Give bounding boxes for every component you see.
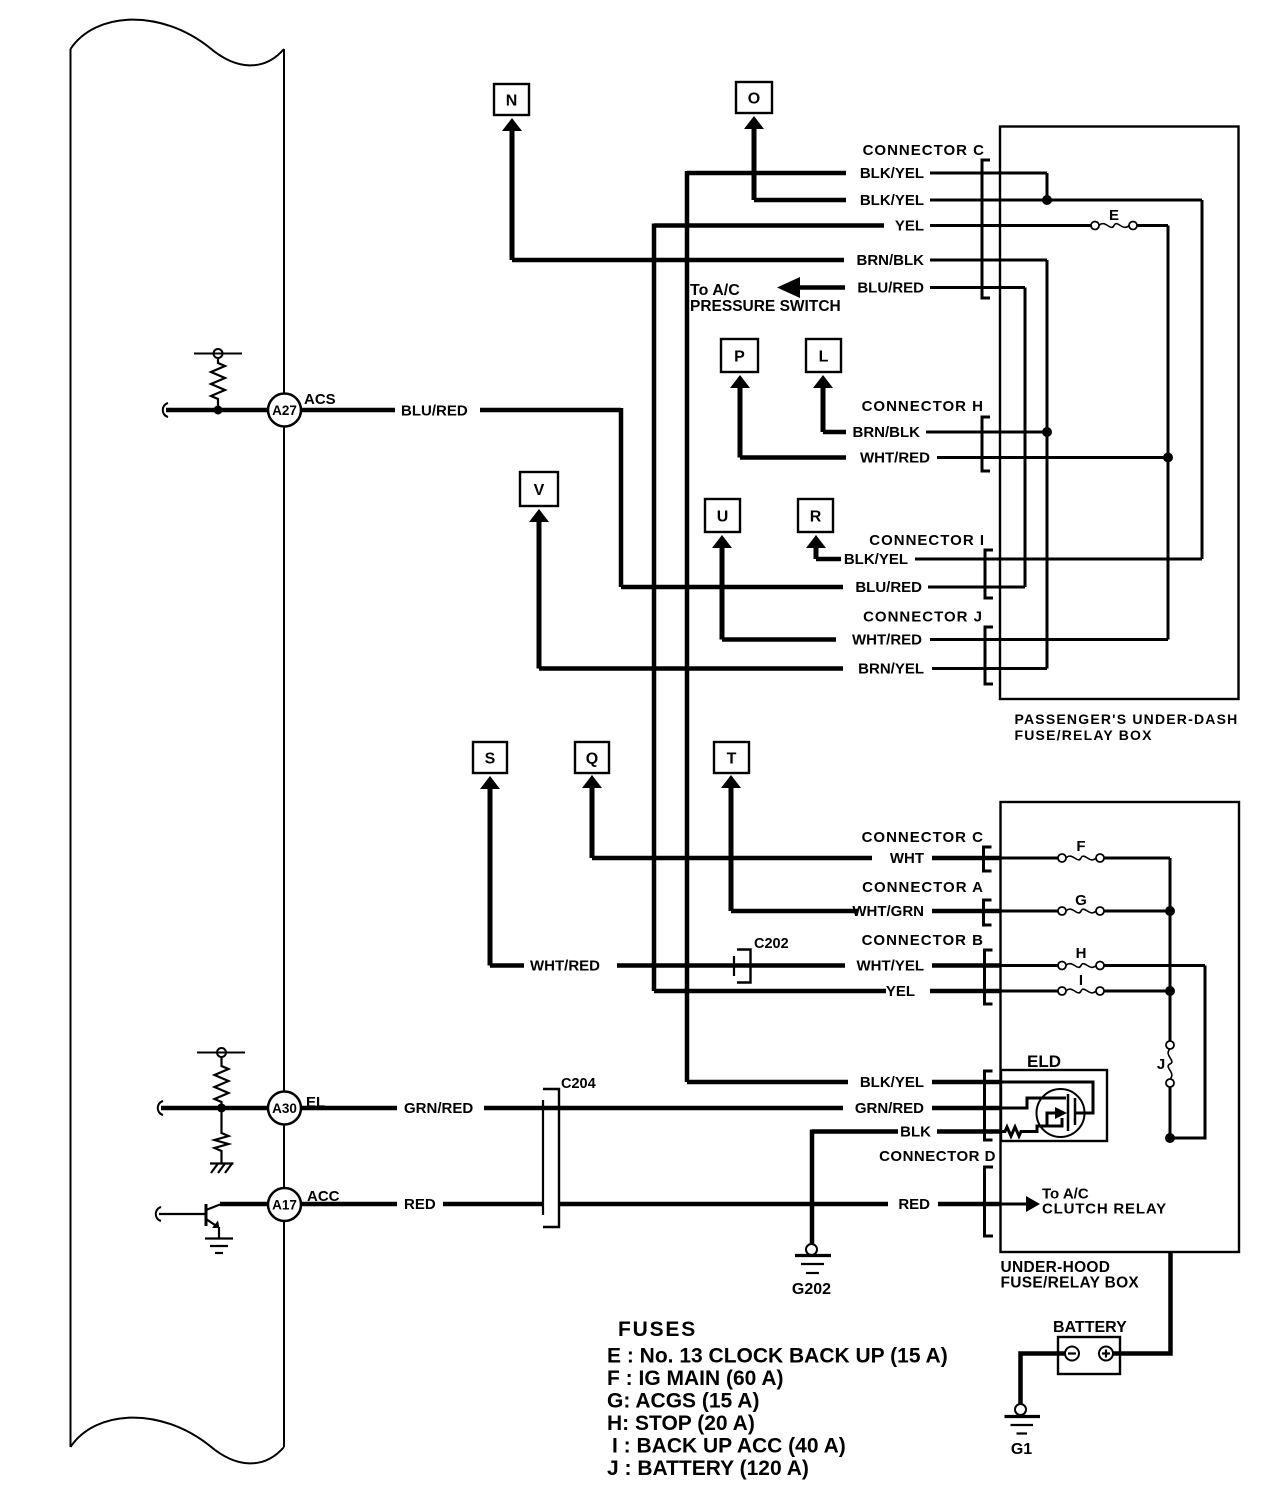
passenger under-dash fuse/relay box [1000, 127, 1239, 744]
wire WHT/RED to C202 to WHT/YEL underhood connector B row1 [490, 958, 1205, 975]
connector circle A17 ACC [268, 1188, 340, 1221]
svg-text:BATTERY: BATTERY [1053, 1319, 1127, 1336]
svg-text:L: L [819, 349, 829, 366]
battery feed below fuse J [1169, 1087, 1172, 1138]
battery feed from box to battery [1113, 1252, 1171, 1354]
svg-text:A27: A27 [272, 403, 297, 418]
wire YEL underhood connector B row2 [654, 983, 1170, 1000]
wire BLK/YEL connector C row1 [687, 165, 1047, 182]
connector bracket D lower (RED) [985, 1167, 994, 1236]
junction dot A27 [214, 406, 223, 415]
svg-text:CONNECTOR D: CONNECTOR D [879, 1148, 996, 1165]
svg-text:E: E [1109, 207, 1119, 224]
wire BLK/YEL connector C row2 [754, 192, 1202, 209]
junction dot battery feed [1165, 1133, 1175, 1143]
svg-text:F : IG MAIN (60 A): F : IG MAIN (60 A) [607, 1367, 784, 1390]
svg-text:A30: A30 [272, 1101, 297, 1116]
arrow box V [520, 472, 558, 669]
connector bracket J passenger [985, 627, 993, 684]
wire BLK from G202 to ELD source [812, 1107, 1067, 1244]
fuse H [1058, 945, 1104, 970]
arrow box L [806, 339, 841, 432]
svg-text:CONNECTOR J: CONNECTOR J [863, 609, 983, 626]
arrow box O [736, 82, 772, 200]
svg-text:C204: C204 [561, 1076, 596, 1092]
svg-text:FUSE/RELAY BOX: FUSE/RELAY BOX [1001, 1275, 1140, 1292]
svg-text:GRN/RED: GRN/RED [855, 1100, 924, 1117]
junction dot BLK/YEL [1042, 195, 1052, 205]
arrow box R [798, 499, 833, 559]
svg-text:BLK: BLK [900, 1124, 931, 1141]
svg-text:C202: C202 [754, 936, 789, 952]
svg-text:BLK/YEL: BLK/YEL [860, 192, 924, 209]
pull-up resistor at A30 [197, 1048, 245, 1107]
svg-text:CONNECTOR I: CONNECTOR I [869, 532, 985, 549]
transistor at A17 [156, 1204, 233, 1253]
wire WHT underhood connector C [592, 850, 1170, 867]
svg-text:WHT/RED: WHT/RED [530, 958, 600, 975]
svg-text:J: J [1157, 1056, 1165, 1073]
wire WHT/RED connector H row2 [740, 450, 1168, 467]
ground G202 [792, 1244, 831, 1298]
connector bracket C passenger [982, 160, 990, 298]
svg-text:CONNECTOR C: CONNECTOR C [862, 829, 984, 846]
svg-text:BRN/BLK: BRN/BLK [857, 252, 925, 269]
svg-text:BLU/RED: BLU/RED [855, 579, 922, 596]
connector bracket I passenger [985, 550, 993, 598]
svg-text:ACS: ACS [304, 391, 336, 408]
svg-text:BLK/YEL: BLK/YEL [860, 1074, 924, 1091]
junction dot BRN/BLK [1042, 427, 1052, 437]
link wire BLK/YEL C2 to connector I in box [1201, 200, 1204, 559]
svg-text:R: R [810, 509, 822, 526]
battery [1053, 1319, 1127, 1374]
svg-text:FUSE/RELAY BOX: FUSE/RELAY BOX [1015, 727, 1153, 743]
connector circle A27 ACS [268, 391, 336, 427]
link wire YEL/E fuse to WHT/RED J in box [1167, 226, 1170, 640]
connector bracket C under-hood [984, 847, 992, 871]
svg-text:BLK/YEL: BLK/YEL [844, 551, 908, 568]
svg-text:J : BATTERY (120 A): J : BATTERY (120 A) [607, 1457, 809, 1480]
fuse F [1058, 838, 1104, 862]
svg-text:UNDER-HOOD: UNDER-HOOD [1001, 1259, 1111, 1276]
arrow box P [721, 339, 758, 458]
svg-text:H: H [1076, 945, 1087, 962]
connector bracket A under-hood [984, 900, 992, 925]
connector bracket H passenger [982, 417, 990, 471]
FUSES legend [607, 1318, 948, 1480]
wire BRN/YEL connector J row2 [539, 661, 1047, 678]
arrow box S [473, 742, 507, 966]
svg-text:CLUTCH RELAY: CLUTCH RELAY [1042, 1201, 1167, 1218]
wire YEL connector C row3 [654, 218, 1168, 235]
wire BLK/YEL underhood connector D to ELD [687, 1074, 1093, 1113]
link wire BLU/RED C to BLU/RED I in box [1024, 288, 1027, 588]
wire BLU/RED from A27 ACS [163, 403, 621, 588]
svg-text:CONNECTOR A: CONNECTOR A [862, 879, 984, 896]
ground G1 [1005, 1404, 1041, 1458]
svg-text:PASSENGER'S UNDER-DASH: PASSENGER'S UNDER-DASH [1015, 711, 1239, 727]
svg-text:To A/C: To A/C [690, 282, 740, 299]
junction dot WHT/RED H [1163, 453, 1173, 463]
wire BLU/RED connector I row2 from A27 [621, 579, 1025, 596]
connector bracket B under-hood [985, 950, 993, 1004]
wire BLU/RED connector C row5 to A/C pressure switch [690, 277, 1025, 315]
connector circle A30 EL [268, 1092, 325, 1125]
svg-text:WHT: WHT [890, 850, 924, 867]
wire WHT/RED connector J row1 [722, 632, 1168, 649]
svg-text:PRESSURE SWITCH: PRESSURE SWITCH [690, 298, 841, 315]
svg-text:BLK/YEL: BLK/YEL [860, 165, 924, 182]
wire H fuse right branch [1170, 966, 1205, 1139]
inline connector C202 [734, 936, 789, 983]
wire BLK/YEL connector I row1 [816, 551, 1202, 568]
fuse I [1058, 972, 1104, 995]
svg-text:BRN/YEL: BRN/YEL [858, 661, 924, 678]
svg-text:A17: A17 [272, 1198, 297, 1213]
svg-text:WHT/RED: WHT/RED [860, 450, 930, 467]
svg-text:BLU/RED: BLU/RED [857, 280, 924, 297]
svg-text:RED: RED [404, 1196, 436, 1213]
svg-text:EL: EL [306, 1094, 325, 1111]
svg-text:GRN/RED: GRN/RED [404, 1100, 473, 1117]
wire RED from A17 ACC through C204 to A/C clutch relay [220, 1186, 1167, 1218]
svg-text:G: G [1075, 892, 1087, 909]
svg-text:WHT/GRN: WHT/GRN [852, 903, 924, 920]
main battery feed vertical in under-hood box [1169, 858, 1172, 1045]
junction dot A30 [217, 1104, 226, 1113]
svg-text:I: I [1079, 972, 1083, 989]
svg-text:I : BACK UP ACC (40 A): I : BACK UP ACC (40 A) [612, 1435, 846, 1458]
svg-text:BRN/BLK: BRN/BLK [853, 424, 921, 441]
svg-text:WHT/RED: WHT/RED [852, 632, 922, 649]
svg-text:V: V [534, 482, 545, 499]
under-hood fuse/relay box [1001, 802, 1240, 1292]
pull-up resistor at A27 [194, 349, 242, 408]
ELD unit [1001, 1052, 1107, 1141]
fuse G [1058, 892, 1104, 915]
vertical wire YEL x654 [652, 224, 657, 992]
svg-text:ELD: ELD [1027, 1052, 1061, 1071]
svg-text:FUSES: FUSES [618, 1318, 697, 1341]
svg-text:YEL: YEL [886, 983, 915, 1000]
battery negative wire to G1 [1021, 1354, 1066, 1405]
fuse J [1157, 1041, 1174, 1087]
svg-text:G202: G202 [792, 1281, 831, 1298]
svg-text:WHT/YEL: WHT/YEL [857, 958, 925, 975]
svg-text:E : No. 13 CLOCK BACK UP (15 A: E : No. 13 CLOCK BACK UP (15 A) [607, 1345, 948, 1368]
svg-text:CONNECTOR B: CONNECTOR B [862, 932, 984, 949]
inline connector C204 [543, 1076, 596, 1227]
svg-text:BLU/RED: BLU/RED [401, 403, 468, 420]
svg-text:O: O [748, 91, 760, 108]
svg-text:G1: G1 [1011, 1441, 1032, 1458]
svg-text:P: P [734, 349, 745, 366]
wire GRN/RED from A30 EL through C204 to ELD gate [158, 1098, 1066, 1117]
arrow box T [714, 742, 749, 911]
connector bracket D upper (ELD) [985, 1071, 993, 1140]
svg-text:ACC: ACC [307, 1188, 340, 1205]
wire WHT/GRN underhood connector A [731, 903, 1170, 920]
svg-text:U: U [717, 509, 729, 526]
svg-text:Q: Q [586, 751, 598, 768]
svg-text:F: F [1076, 838, 1085, 855]
pull-down resistor and chassis ground at A30 [210, 1110, 234, 1173]
wire harness band (control unit) [71, 20, 285, 1464]
svg-text:YEL: YEL [895, 218, 924, 235]
svg-text:H: STOP (20 A): H: STOP (20 A) [607, 1412, 755, 1435]
arrow box U [705, 499, 740, 640]
junction dot I fuse [1165, 986, 1175, 996]
link wire BLK/YEL C1 to C2 in box [1046, 173, 1049, 200]
arrow box Q [575, 742, 609, 858]
vertical wire BLK/YEL x687 [685, 171, 690, 1082]
svg-text:CONNECTOR C: CONNECTOR C [863, 142, 985, 159]
svg-text:T: T [727, 751, 737, 768]
svg-text:N: N [506, 93, 518, 110]
svg-text:S: S [485, 751, 496, 768]
link wire BRN/BLK C to BRN/YEL J in box [1046, 260, 1049, 669]
svg-text:CONNECTOR H: CONNECTOR H [862, 398, 984, 415]
svg-text:G: ACGS (15 A): G: ACGS (15 A) [607, 1390, 759, 1413]
wire BRN/BLK connector C row4 [512, 252, 1047, 269]
arrow box N [494, 84, 529, 260]
svg-text:RED: RED [898, 1196, 930, 1213]
fuse E [1091, 207, 1137, 230]
junction dot G fuse [1165, 906, 1175, 916]
wire BRN/BLK connector H row1 [823, 424, 1047, 441]
